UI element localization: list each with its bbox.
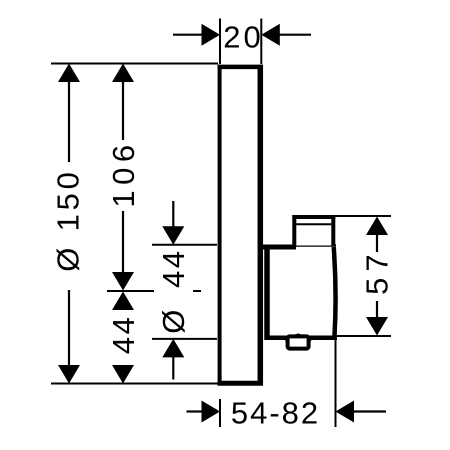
stop tab at body bottom <box>285 335 312 348</box>
dimension 44 (handle axis to plate bottom) <box>106 292 141 384</box>
dim line + arrow right <box>280 34 312 36</box>
left extension line top (plate top) <box>51 63 218 65</box>
dimension 20 (plate thickness) <box>173 19 311 65</box>
upper leader + arrow (points down) <box>172 201 174 227</box>
lower leader + arrow (points up) <box>162 339 184 358</box>
handle knob <box>292 215 335 246</box>
dimension 106 (plate top to handle axis) <box>106 64 141 291</box>
left extension line bottom (plate bottom) <box>51 383 225 385</box>
handle axis centerline <box>107 290 201 292</box>
svg-text:Ø 150: Ø 150 <box>51 168 86 271</box>
cover plate (escutcheon, 20mm thick, O150) <box>218 65 263 386</box>
dim line + arrow left <box>173 34 202 36</box>
dimension O44 (handle diameter) <box>152 201 217 380</box>
svg-text:Ø 44: Ø 44 <box>156 248 191 333</box>
dimension 57 (handle height) <box>335 216 395 336</box>
dimension O150 (plate diameter) <box>51 64 86 384</box>
lower reference tick <box>152 338 217 340</box>
svg-text:20: 20 <box>223 19 263 54</box>
extension line left of 20 <box>219 19 221 65</box>
valve body <box>259 245 337 341</box>
extension line left (plate face) <box>219 399 221 427</box>
handle seam line <box>296 223 331 225</box>
dimension 54-82 (installation depth range) <box>187 338 387 431</box>
svg-text:57: 57 <box>360 248 395 294</box>
extension line right of 20 <box>260 19 262 65</box>
extension line right (body rear) <box>335 338 337 427</box>
extension line top (knob top) <box>335 215 391 217</box>
svg-text:44: 44 <box>106 315 141 354</box>
svg-text:54-82: 54-82 <box>231 396 320 431</box>
extension line bottom (body bottom) <box>337 335 391 337</box>
svg-text:106: 106 <box>106 139 141 207</box>
upper reference tick <box>152 244 217 246</box>
